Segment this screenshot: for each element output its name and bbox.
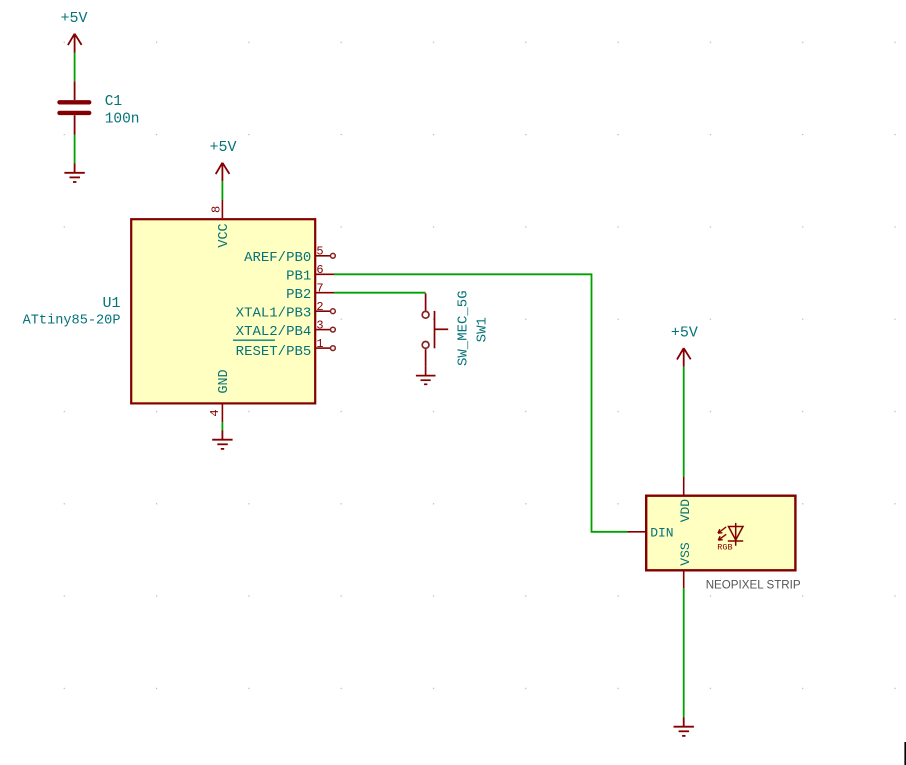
svg-text:DIN: DIN — [650, 525, 673, 540]
svg-text:AREF/PB0: AREF/PB0 — [244, 250, 311, 266]
svg-text:100n: 100n — [105, 112, 140, 128]
svg-text:4: 4 — [208, 409, 222, 416]
svg-text:RESET/PB5: RESET/PB5 — [236, 344, 312, 360]
svg-text:XTAL1/PB3: XTAL1/PB3 — [236, 305, 312, 321]
svg-text:1: 1 — [316, 337, 323, 351]
svg-text:7: 7 — [316, 282, 323, 296]
svg-text:+5V: +5V — [209, 139, 236, 156]
svg-text:VDD: VDD — [678, 499, 693, 523]
svg-text:+5V: +5V — [671, 324, 698, 341]
svg-text:5: 5 — [316, 245, 323, 259]
svg-text:XTAL2/PB4: XTAL2/PB4 — [236, 324, 312, 340]
svg-text:NEOPIXEL STRIP: NEOPIXEL STRIP — [706, 578, 801, 591]
svg-text:PB1: PB1 — [286, 269, 311, 285]
svg-text:8: 8 — [209, 206, 223, 213]
svg-text:+5V: +5V — [60, 10, 87, 27]
svg-text:SW_MEC_5G: SW_MEC_5G — [456, 290, 472, 366]
svg-text:RGB: RGB — [717, 542, 732, 552]
svg-text:GND: GND — [217, 369, 232, 393]
svg-text:ATtiny85-20P: ATtiny85-20P — [23, 313, 121, 328]
svg-text:C1: C1 — [105, 94, 122, 110]
svg-text:2: 2 — [316, 300, 323, 314]
svg-text:3: 3 — [316, 318, 323, 332]
svg-text:VSS: VSS — [678, 542, 693, 566]
svg-text:6: 6 — [316, 263, 323, 277]
svg-text:VCC: VCC — [217, 223, 232, 247]
svg-text:PB2: PB2 — [286, 287, 311, 303]
svg-text:U1: U1 — [102, 295, 120, 312]
svg-text:SW1: SW1 — [475, 317, 491, 342]
